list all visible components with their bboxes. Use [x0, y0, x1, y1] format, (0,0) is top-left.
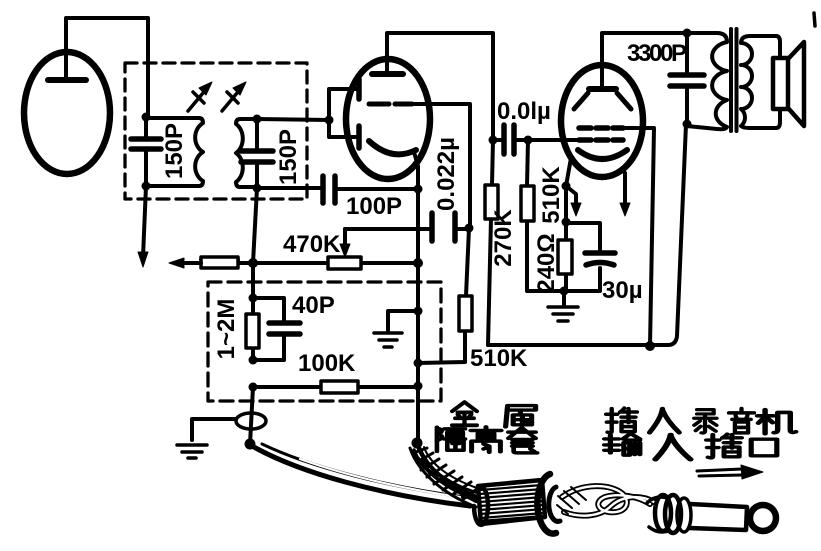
V3 cathode — [578, 150, 627, 159]
V2 diode plate 2 — [356, 126, 362, 148]
potentiometer wiper arrow 470K — [343, 229, 347, 247]
text label: ge li tao — [437, 427, 465, 451]
speaker — [773, 42, 804, 126]
resistor 270K — [485, 140, 498, 345]
node (V2 diode input) — [325, 116, 334, 125]
inductor L2 (IF secondary) — [236, 119, 257, 187]
node (240R top) — [562, 218, 571, 227]
resistor 100K — [253, 381, 418, 393]
node (ground stub tap) — [414, 307, 423, 316]
V2 diode plate 1 — [356, 79, 362, 99]
wire box2 left leg down — [250, 387, 253, 444]
wire V2 plate to B+ rail — [387, 33, 493, 137]
capacitor 3300P — [670, 33, 704, 124]
node (100K left) — [249, 383, 258, 392]
svg-text:0.022µ: 0.022µ — [433, 137, 460, 211]
V3 screen grid (dashed) — [579, 125, 623, 131]
node (100P to cathode line) — [414, 185, 423, 194]
scan speckle top right — [814, 13, 815, 26]
node (screen tie on rail) — [645, 341, 655, 351]
ground (V3 cathode) — [548, 291, 578, 321]
node (cathode ground) — [560, 287, 569, 296]
B+ rail bottom — [488, 124, 686, 345]
resistor 240R — [558, 240, 572, 274]
node (cathode junction) — [562, 182, 571, 191]
wire bead to ground — [192, 419, 236, 440]
ground (chassis, bottom left) — [177, 445, 207, 458]
V3 plate — [589, 86, 616, 92]
capacitor 0.022u — [345, 213, 468, 241]
wire secondary to speaker — [776, 36, 780, 128]
capacitor 0.01u — [493, 125, 579, 154]
arrow (insert direction) — [697, 465, 763, 479]
resistor 510K (lower) — [418, 228, 472, 363]
node (0.022u / grid line) — [465, 224, 474, 233]
tube V3 (output) — [561, 65, 643, 177]
capacitor 30u (electrolytic) — [566, 223, 615, 291]
tuning arrow (left coil) — [188, 87, 208, 111]
node (0.01u left / plate load) — [489, 136, 498, 145]
tube V1 (magnetic antenna / input tube) — [24, 52, 110, 174]
svg-text:100P: 100P — [346, 193, 402, 220]
resistor 1~2M — [246, 298, 259, 360]
V2 grid (dashed) — [369, 102, 412, 107]
node (IF secondary bottom) — [253, 184, 262, 193]
text label: shu ru cha kou (input jack) — [605, 434, 640, 456]
insulator bead — [236, 413, 266, 429]
wire IF secondary to V2 diode input — [257, 119, 329, 120]
wire secondary-bottom down to pot-left — [253, 188, 257, 298]
wire V3 plate to transformer — [602, 33, 687, 86]
svg-text:270K: 270K — [490, 209, 517, 267]
node (shield cable left) — [245, 439, 256, 450]
V3 beam plates — [574, 93, 631, 109]
svg-text:1~2M: 1~2M — [213, 299, 240, 360]
text label: cha ru lu yin ji (plug into recorder) — [606, 408, 637, 433]
ground (box2) — [374, 333, 402, 347]
transformer secondary — [741, 36, 776, 128]
twist hatch at ring exit — [557, 487, 586, 514]
capacitor 40P — [253, 298, 300, 360]
wire V1 top to IF box — [66, 18, 148, 117]
node (510K bottom tie) — [414, 359, 423, 368]
svg-text:510K: 510K — [470, 345, 528, 372]
twisted wires — [562, 486, 654, 516]
sleeve end ring — [537, 474, 560, 534]
transformer primary — [687, 33, 727, 129]
svg-text:40P: 40P — [292, 292, 335, 319]
wire ground stub — [388, 311, 418, 330]
inductor L1 (IF primary) — [146, 118, 203, 186]
capacitor 100P — [257, 176, 418, 203]
text label: metal shield sleeve (jin shu) — [452, 402, 477, 425]
node A (IF primary top) — [142, 113, 151, 122]
node (100K right) — [414, 382, 423, 391]
plug tip — [750, 505, 776, 531]
svg-text:150P: 150P — [161, 123, 188, 179]
svg-text:150P: 150P — [275, 129, 302, 185]
V3 pin lead arrow 1 — [566, 186, 576, 206]
wire V2 grid to 0.022u — [412, 104, 470, 225]
dashed box (tone/feedback network) — [208, 282, 441, 401]
svg-text:100K: 100K — [298, 350, 356, 377]
node (510K grid-leak top) — [524, 136, 533, 145]
svg-text:0.0lµ: 0.0lµ — [497, 98, 551, 125]
node (bottom of 1~2M) — [249, 356, 258, 365]
wire V2 cathode down — [414, 152, 418, 440]
wire IF primary down with AGC arrow — [143, 186, 146, 257]
svg-text:470K: 470K — [283, 231, 341, 258]
node (3300P top) — [683, 29, 692, 38]
node (IF primary bottom) — [142, 182, 151, 191]
plug shaft — [689, 504, 747, 530]
node (top of 1~2M) — [249, 294, 258, 303]
wire V3 cathode down — [566, 158, 571, 291]
node (pot right / cathode line) — [413, 258, 423, 268]
wire 0.01u to V3 grid — [528, 138, 579, 142]
dashed box IF transformer — [125, 63, 307, 199]
svg-text:510K: 510K — [538, 166, 565, 224]
plug connector rings — [647, 495, 691, 533]
node (IF secondary top) — [253, 115, 262, 124]
wire V3 screen down to B+ rail — [623, 128, 654, 346]
tuning arrow (right coil) — [222, 87, 242, 111]
wire diode plates junction — [329, 89, 359, 137]
V3 pin lead arrow 2 — [623, 173, 627, 205]
V3 control grid (dashed) — [579, 137, 623, 143]
resistor 470K (volume pot) — [257, 257, 418, 269]
node (shield cable right) — [412, 438, 423, 449]
capacitor 150P (secondary) — [241, 119, 273, 188]
transformer core — [731, 29, 737, 131]
node (pot left) — [248, 258, 258, 268]
svg-text:240Ω: 240Ω — [533, 233, 560, 292]
V2 cathode — [369, 141, 416, 154]
capacitor 150P (primary) — [131, 117, 161, 186]
svg-text:30µ: 30µ — [602, 277, 643, 304]
svg-text:3300P: 3300P — [627, 40, 687, 67]
metal sleeve (ribbed) — [474, 480, 545, 525]
V2 plate — [372, 71, 403, 77]
shield braid (from right node) — [410, 445, 478, 507]
node (3300P bottom / primary bottom) — [683, 120, 692, 129]
resistor 510K (grid leak) — [521, 140, 564, 291]
shielded cable (inner lead from left node) — [252, 444, 472, 506]
tube V2 (detector / 1st AF) — [346, 59, 430, 179]
resistor AGC out with arrow — [169, 257, 253, 268]
